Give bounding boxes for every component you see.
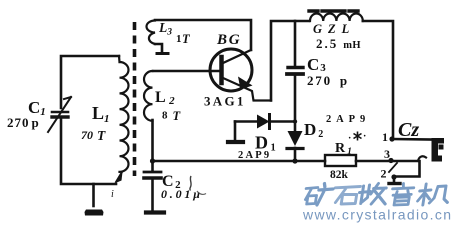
svg-text:Cz: Cz xyxy=(398,119,419,141)
svg-text:1: 1 xyxy=(176,33,182,45)
svg-text:270p: 270p xyxy=(7,115,40,130)
svg-text:i: i xyxy=(111,189,114,200)
svg-text:BG: BG xyxy=(216,32,241,48)
svg-text:270p: 270p xyxy=(307,73,349,88)
svg-text:2: 2 xyxy=(381,167,387,181)
svg-text:www.crystalradio.cn: www.crystalradio.cn xyxy=(302,207,452,223)
svg-text:82k: 82k xyxy=(330,169,349,181)
svg-text:70: 70 xyxy=(81,128,93,142)
svg-text:3: 3 xyxy=(384,147,390,161)
svg-text:2AP9: 2AP9 xyxy=(238,150,271,161)
svg-text:GZL: GZL xyxy=(313,22,355,36)
svg-text:1: 1 xyxy=(382,130,388,144)
svg-text:0.01μ: 0.01μ xyxy=(161,187,203,201)
svg-text:·: · xyxy=(363,131,366,142)
svg-text:T: T xyxy=(97,128,106,143)
svg-text:2AP9: 2AP9 xyxy=(326,114,370,125)
svg-text:3AG1: 3AG1 xyxy=(204,94,246,109)
svg-text:8: 8 xyxy=(162,110,168,122)
svg-text:·: · xyxy=(348,133,351,144)
